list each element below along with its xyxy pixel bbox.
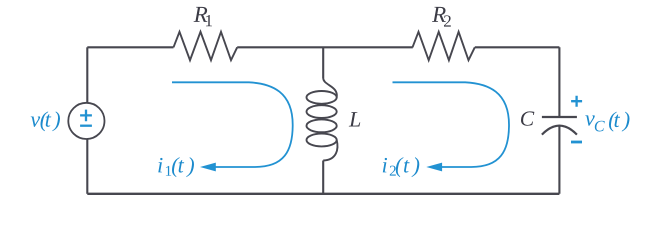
voltage source circle [68, 103, 104, 139]
arrowhead i2 [426, 163, 442, 172]
inductor L entry hook [323, 78, 337, 97]
inductor L loop 1 [307, 91, 337, 104]
resistor R1 [174, 32, 238, 60]
voltage source minus sign [80, 125, 92, 127]
mesh current arrow i2 [393, 82, 510, 167]
label i1t [158, 157, 194, 177]
inductor L loop 4 [307, 134, 337, 147]
label vt [31, 111, 60, 131]
capacitor plus sign [571, 96, 582, 142]
capacitor C curved bottom plate [542, 126, 577, 135]
label L [349, 112, 360, 126]
inductor L loop 2 [307, 105, 337, 118]
wire: right lower below capacitor [558, 126, 560, 194]
label i2t [383, 157, 419, 177]
arrowhead i1 [200, 163, 216, 172]
wire: top middle segment [237, 46, 413, 48]
inductor L loop 3 [307, 119, 337, 132]
capacitor minus sign [571, 141, 582, 144]
resistor R2 [413, 32, 475, 60]
mesh current arrow i1 [172, 82, 293, 167]
wire: middle upper to inductor [322, 47, 324, 78]
label R2 [432, 7, 451, 27]
wire: top right segment [475, 46, 560, 48]
wire: left upper [86, 47, 88, 103]
wire: right upper above capacitor [558, 47, 560, 117]
wire: left lower [86, 139, 88, 194]
inductor L exit hook [323, 140, 337, 161]
wire: bottom [87, 193, 559, 195]
label R1 [194, 7, 212, 26]
label C [521, 111, 534, 125]
wire: top left segment [87, 46, 173, 48]
capacitor C top plate [542, 116, 577, 118]
voltage source plus sign [80, 110, 92, 126]
label vct [585, 112, 629, 132]
wire: middle lower below inductor [322, 161, 324, 194]
